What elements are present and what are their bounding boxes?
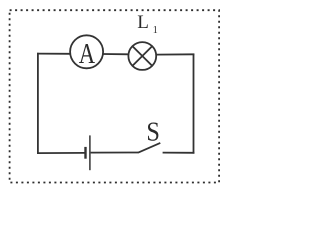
- svg-text:1: 1: [153, 25, 158, 36]
- wire right side: [193, 54, 195, 154]
- ammeter A: [70, 35, 103, 69]
- svg-text:A: A: [79, 37, 96, 69]
- wire ammeter to lamp: [103, 53, 129, 55]
- battery positive plate (long thin): [89, 135, 91, 170]
- wire switch to bottom-right corner: [163, 152, 195, 154]
- wire battery to switch: [91, 152, 139, 154]
- battery negative plate (short thick): [84, 147, 86, 159]
- wire top-left segment: [37, 53, 70, 55]
- wire bottom-left segment: [37, 152, 85, 154]
- svg-text:S: S: [146, 116, 160, 146]
- wire left side: [37, 53, 39, 154]
- label L1: [137, 12, 158, 36]
- lamp L1: [128, 42, 156, 70]
- svg-text:L: L: [137, 12, 149, 33]
- switch S blade (open): [138, 143, 160, 153]
- wire top-right segment: [156, 53, 194, 55]
